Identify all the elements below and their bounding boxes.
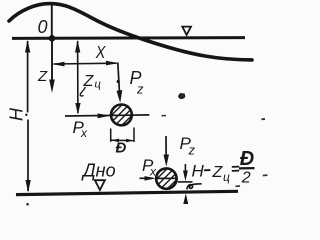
Pz force arrow (lower cylinder) <box>165 136 167 162</box>
svg-text:2: 2 <box>241 169 251 186</box>
ink speck (scan noise) <box>178 93 185 99</box>
Px force arrow (lower cylinder) <box>140 177 153 179</box>
H-Zc dimension arrows (outside, small gap) <box>184 164 186 176</box>
D diameter dimension (extension lines) <box>110 129 112 142</box>
still-water surface line <box>12 36 245 40</box>
bottom nabla <box>95 180 105 190</box>
svg-text:X: X <box>95 42 106 62</box>
cylinder 1 (hatched circle) <box>98 88 152 142</box>
svg-text:Ð: Ð <box>240 148 254 170</box>
svg-text:x: x <box>149 165 157 179</box>
svg-text:ц: ц <box>223 170 230 184</box>
water-level nabla (top) <box>182 27 191 35</box>
svg-text:ц: ц <box>95 79 101 91</box>
H dimension line (lower segment) <box>27 120 29 192</box>
svg-text:H: H <box>192 162 205 181</box>
Px force arrow (upper cylinder) <box>65 115 149 116</box>
crest vertical line <box>51 5 53 37</box>
origin node dot <box>49 35 56 42</box>
leader squiggle <box>187 184 202 190</box>
cylinder 2 (hatched circle on bottom) <box>143 152 194 203</box>
svg-text:Дно: Дно <box>81 161 116 181</box>
svg-text:x: x <box>80 126 88 140</box>
speck right edge <box>263 174 268 176</box>
Pz force arrow (upper cylinder) <box>118 63 120 99</box>
H dimension line (upper segment) <box>27 41 29 113</box>
D dimension line with arrows <box>111 139 134 141</box>
X dimension line <box>54 62 117 65</box>
svg-text:z: z <box>188 143 196 158</box>
svg-text:z: z <box>136 82 144 97</box>
svg-text:Z: Z <box>37 68 48 85</box>
Z axis arrow <box>51 40 53 82</box>
svg-text:Z: Z <box>212 164 224 181</box>
center line through cylinder 2 <box>156 177 178 179</box>
wave free-surface curve <box>9 4 252 60</box>
speck bottom left <box>26 203 29 206</box>
svg-text:0: 0 <box>38 17 48 37</box>
svg-text:Ð: Ð <box>116 140 127 157</box>
Zc depth dimension line <box>77 41 79 113</box>
speck mid right <box>262 118 266 120</box>
center-height tick right of cylinder 2 <box>178 181 193 183</box>
small dash right of center line <box>162 115 167 117</box>
bottom line (Дно) <box>16 191 238 194</box>
svg-text:H: H <box>6 107 26 121</box>
svg-text:Z: Z <box>83 73 95 90</box>
speck below formula <box>236 185 241 187</box>
